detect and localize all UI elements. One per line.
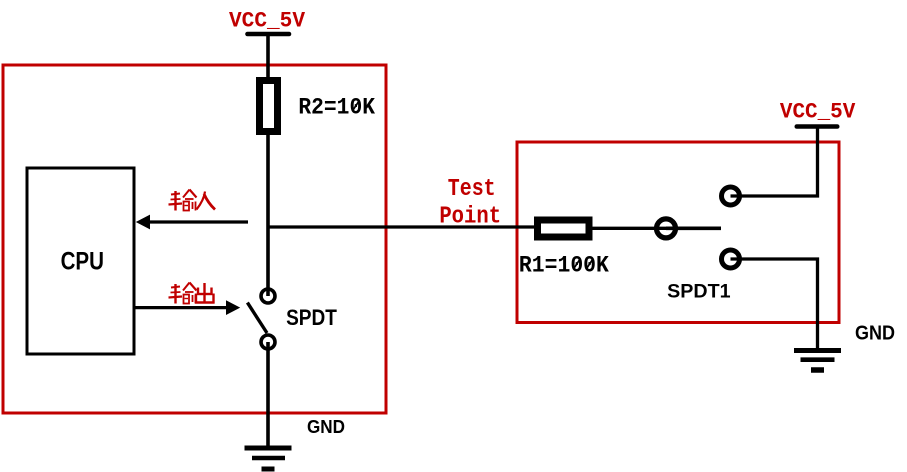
入 char of 输入 bbox=[197, 192, 216, 210]
node Test Point wire (junction to R1) bbox=[268, 225, 535, 228]
wire VCC bar to R2 top bbox=[266, 34, 270, 80]
switch SPDT bottom contact circle bbox=[261, 335, 275, 349]
resistor R2 bbox=[260, 81, 278, 132]
power symbol VCC bar (right) bbox=[797, 124, 837, 129]
svg-text:VCC_5V: VCC_5V bbox=[229, 8, 305, 34]
resistor R1 bbox=[538, 220, 590, 237]
arrow output (from CPU to switch) bbox=[134, 306, 228, 309]
switch SPDT1 pole contact circle bbox=[657, 219, 676, 238]
出 char of 输出 bbox=[195, 283, 215, 304]
arrow input (into CPU) bbox=[148, 220, 248, 223]
right dashed-region box (tester side) bbox=[517, 142, 839, 323]
label 输出 (output, drawn strokes) bbox=[169, 283, 215, 304]
svg-text:GND: GND bbox=[307, 417, 345, 437]
switch SPDT1 bottom throw contact circle bbox=[722, 250, 740, 268]
label 输入 (input, drawn strokes) bbox=[169, 190, 216, 211]
wire R2 bottom to switch top contact bbox=[266, 135, 270, 296]
ground symbol (left) bbox=[245, 448, 292, 469]
输 char of 输入 bbox=[169, 190, 197, 211]
wire R1 to pole contact bbox=[593, 227, 667, 230]
输 char of 输出 bbox=[169, 283, 197, 304]
switch SPDT blade bbox=[247, 303, 267, 333]
svg-text:VCC_5V: VCC_5V bbox=[780, 99, 856, 125]
svg-text:CPU: CPU bbox=[61, 248, 104, 276]
left dashed-region box (CPU side) bbox=[3, 65, 386, 413]
svg-text:Test: Test bbox=[448, 176, 496, 203]
svg-text:SPDT1: SPDT1 bbox=[667, 281, 731, 302]
power symbol VCC bar (left) bbox=[248, 32, 290, 37]
wire top throw to VCC rail bbox=[731, 128, 818, 196]
switch SPDT top contact circle bbox=[261, 289, 275, 303]
svg-text:R2=10K: R2=10K bbox=[298, 95, 375, 122]
svg-text:GND: GND bbox=[855, 323, 895, 345]
ground symbol (right) bbox=[794, 351, 841, 371]
CPU block U1 bbox=[27, 168, 134, 354]
wire switch bottom contact to ground bbox=[266, 342, 270, 446]
svg-text:SPDT: SPDT bbox=[286, 305, 337, 330]
wire into top contact bbox=[266, 289, 270, 296]
wire bottom throw to ground bbox=[731, 259, 818, 349]
switch SPDT1 top throw contact circle bbox=[722, 187, 740, 205]
svg-text:R1=100K: R1=100K bbox=[519, 253, 610, 280]
svg-text:Point: Point bbox=[439, 204, 501, 231]
switch SPDT1 blade bbox=[666, 227, 721, 231]
